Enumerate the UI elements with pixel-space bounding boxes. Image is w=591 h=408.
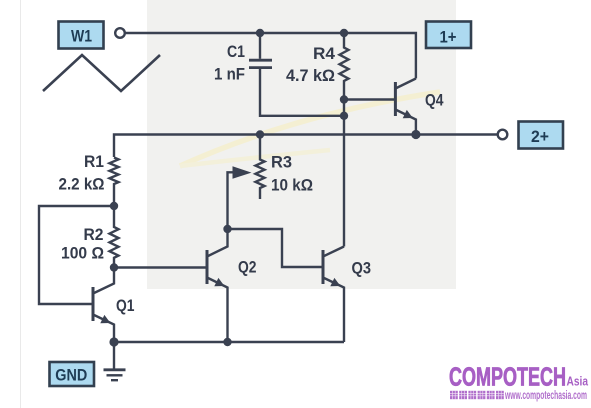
- ground: [104, 342, 126, 380]
- node Q1 emitter / ground: [109, 337, 118, 346]
- resistor R4: [340, 33, 349, 100]
- node R3 top: [256, 130, 264, 138]
- terminal box W1: [59, 22, 104, 49]
- terminal circle 2+: [498, 130, 508, 140]
- COMPOTECH Asia logo: [449, 362, 589, 403]
- svg-text:www.compotechasia.com: www.compotechasia.com: [504, 390, 587, 402]
- resistor R3: [256, 135, 265, 200]
- svg-text:COMPOTECH: COMPOTECH: [449, 362, 566, 392]
- svg-text:1+: 1+: [440, 28, 457, 47]
- terminal box 1+: [426, 22, 471, 49]
- svg-text:2+: 2+: [531, 127, 549, 146]
- svg-text:C1: C1: [227, 42, 245, 61]
- node R1/R2 junction: [110, 202, 118, 210]
- svg-text:2.2 kΩ: 2.2 kΩ: [59, 175, 105, 194]
- capacitor C1 plates: [249, 59, 272, 62]
- wire 2+ rail: [114, 135, 498, 158]
- svg-text:Q4: Q4: [425, 91, 444, 110]
- transistor Q1: [93, 269, 114, 342]
- svg-text:R2: R2: [84, 225, 104, 244]
- svg-text:1 nF: 1 nF: [214, 65, 245, 84]
- svg-text:GND: GND: [55, 366, 87, 385]
- resistor R1: [110, 158, 119, 207]
- node R4 bottom / Q4 base: [340, 95, 348, 103]
- wire C1/R4 junction to Q3 collector (vertical x=344): [343, 100, 345, 247]
- transistor Q3: [323, 247, 344, 343]
- R3 wiper arrow wire: [228, 172, 241, 229]
- resistor R2: [110, 206, 119, 268]
- terminal box GND: [50, 362, 95, 386]
- wire Q2 base: [114, 266, 207, 268]
- svg-text:W1: W1: [71, 26, 92, 45]
- node Q2 emitter on bottom rail: [223, 338, 231, 346]
- svg-text:R3: R3: [271, 153, 292, 172]
- wire bottom rail: [114, 341, 344, 343]
- transistor Q4: [395, 79, 416, 135]
- svg-text:Asia: Asia: [567, 374, 589, 389]
- svg-text:Q3: Q3: [352, 259, 372, 278]
- wire Q3 base: [228, 229, 324, 267]
- terminal box 2+: [519, 122, 564, 149]
- R3 wiper arrowhead: [233, 166, 252, 179]
- svg-text:R1: R1: [84, 152, 104, 171]
- transistor Q2: [207, 229, 228, 342]
- node R4 top: [340, 29, 348, 37]
- svg-text:Q2: Q2: [238, 258, 257, 277]
- node R2 bottom / Q1 collector / Q2 base: [110, 263, 118, 271]
- wire left loop R1R2 node to Q1 base: [39, 206, 114, 304]
- terminal circle W1: [115, 28, 125, 38]
- node R3 wiper / Q2 collector: [223, 225, 231, 233]
- node C1 bottom junction: [340, 112, 348, 120]
- svg-text:100 Ω: 100 Ω: [61, 244, 104, 263]
- wire top rail W1 to Q4 collector corner: [126, 33, 416, 79]
- svg-text:Q1: Q1: [116, 296, 135, 315]
- svg-text:4.7 kΩ: 4.7 kΩ: [286, 66, 335, 85]
- capacitor C1 branch wires: [259, 33, 261, 59]
- svg-text:10 kΩ: 10 kΩ: [271, 176, 313, 195]
- node Q4 emitter on 2+ rail: [411, 130, 420, 139]
- node C1 top: [256, 29, 264, 37]
- waveform symbol triangle wave: [43, 55, 160, 91]
- svg-text:R4: R4: [313, 44, 336, 63]
- wire Q4 base: [344, 98, 395, 100]
